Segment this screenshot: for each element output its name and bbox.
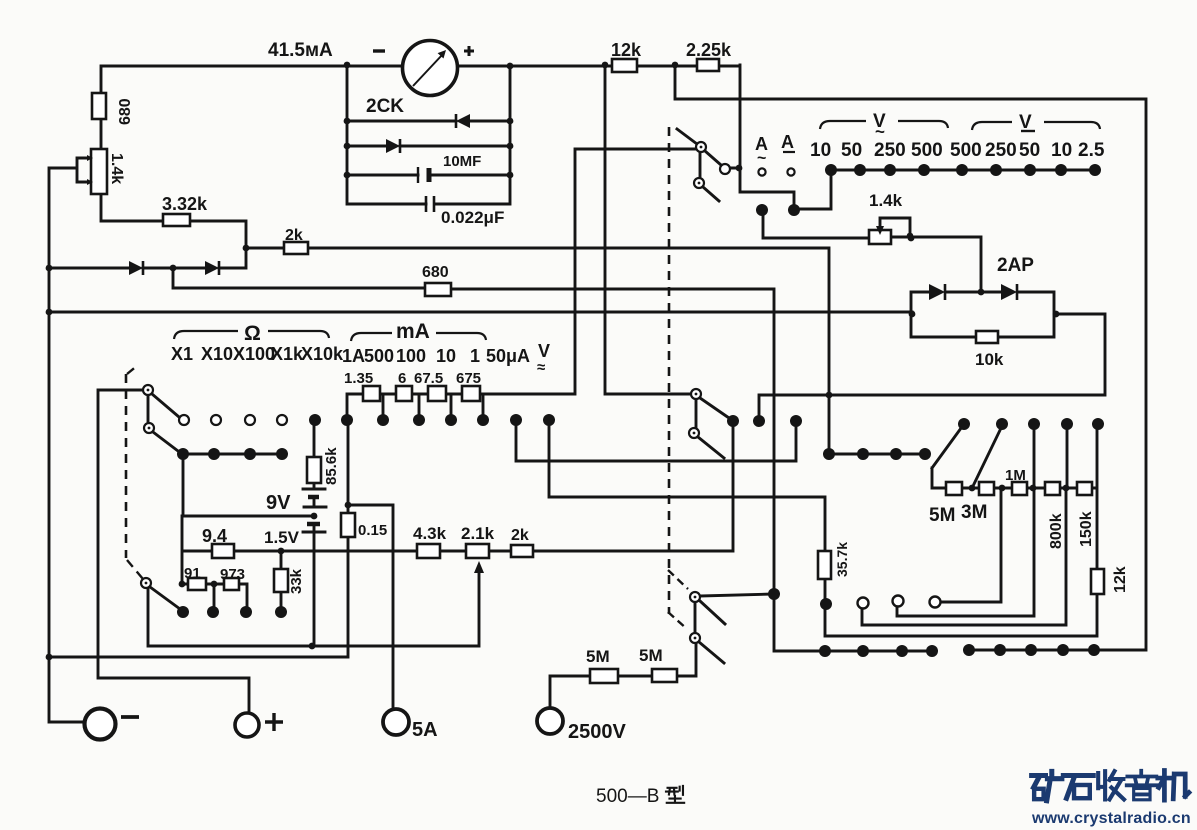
- svg-text:9.4: 9.4: [202, 526, 227, 546]
- svg-text:973: 973: [220, 566, 245, 583]
- svg-text:91: 91: [184, 565, 201, 582]
- svg-text:0.022μF: 0.022μF: [441, 208, 504, 227]
- svg-text:5M: 5M: [639, 646, 663, 665]
- svg-text:250: 250: [874, 140, 906, 161]
- svg-text:0.15: 0.15: [358, 522, 387, 539]
- svg-text:10: 10: [810, 140, 831, 161]
- svg-text:2AP: 2AP: [997, 255, 1034, 276]
- svg-text:X10: X10: [201, 344, 233, 364]
- svg-text:10МF: 10МF: [443, 153, 481, 170]
- svg-text:10: 10: [1051, 140, 1072, 161]
- svg-text:X100: X100: [233, 344, 275, 364]
- svg-text:5A: 5A: [412, 719, 438, 741]
- svg-text:1.4k: 1.4k: [108, 153, 125, 184]
- svg-text:150k: 150k: [1078, 511, 1095, 547]
- svg-text:85.6k: 85.6k: [323, 447, 340, 485]
- svg-text:1.4k: 1.4k: [869, 191, 903, 210]
- svg-text:3M: 3M: [961, 502, 987, 523]
- svg-text:2.5: 2.5: [1078, 140, 1105, 161]
- svg-text:12k: 12k: [611, 40, 642, 60]
- svg-text:6: 6: [398, 370, 406, 387]
- svg-text:35.7k: 35.7k: [834, 542, 850, 577]
- svg-text:41.5мA: 41.5мA: [268, 40, 333, 61]
- svg-text:2k: 2k: [285, 227, 303, 244]
- svg-text:X10k: X10k: [301, 344, 344, 364]
- svg-text:50: 50: [1019, 140, 1040, 161]
- svg-text:5M: 5M: [586, 647, 610, 666]
- svg-text:500—B: 500—B: [596, 786, 659, 807]
- svg-text:33k: 33k: [288, 568, 305, 594]
- svg-text:www.crystalradio.cn: www.crystalradio.cn: [1031, 810, 1191, 827]
- svg-text:1: 1: [470, 346, 480, 366]
- svg-text:1.5V: 1.5V: [264, 528, 300, 547]
- svg-text:A: A: [781, 132, 794, 152]
- svg-text:V: V: [538, 341, 550, 361]
- svg-text:12k: 12k: [1112, 566, 1129, 593]
- svg-text:1A: 1A: [342, 346, 365, 366]
- svg-text:675: 675: [456, 370, 481, 387]
- svg-text:2CK: 2CK: [366, 96, 404, 117]
- svg-text:5M: 5M: [929, 505, 955, 526]
- svg-text:680: 680: [117, 98, 134, 125]
- svg-text:800k: 800k: [1048, 513, 1065, 549]
- svg-text:67.5: 67.5: [414, 370, 443, 387]
- svg-text:2.1k: 2.1k: [461, 524, 495, 543]
- svg-text:9V: 9V: [266, 492, 291, 514]
- svg-text:1.35: 1.35: [344, 370, 373, 387]
- svg-text:4.3k: 4.3k: [413, 524, 447, 543]
- svg-text:500: 500: [950, 140, 982, 161]
- svg-text:X1k: X1k: [271, 344, 304, 364]
- svg-text:Ω: Ω: [244, 322, 261, 345]
- svg-text:~: ~: [875, 122, 885, 141]
- svg-text:mA: mA: [396, 320, 430, 343]
- svg-text:500: 500: [911, 140, 943, 161]
- svg-text:1M: 1M: [1005, 467, 1026, 484]
- svg-text:≈: ≈: [537, 359, 545, 376]
- svg-text:250: 250: [985, 140, 1017, 161]
- svg-text:680: 680: [422, 264, 449, 281]
- svg-text:50μA: 50μA: [486, 346, 530, 366]
- svg-text:100: 100: [396, 346, 426, 366]
- svg-text:2k: 2k: [511, 527, 529, 544]
- svg-text:3.32k: 3.32k: [162, 194, 208, 214]
- svg-text:10k: 10k: [975, 350, 1004, 369]
- svg-text:2.25k: 2.25k: [686, 40, 732, 60]
- svg-text:~: ~: [757, 150, 766, 167]
- svg-text:500: 500: [364, 346, 394, 366]
- svg-text:50: 50: [841, 140, 862, 161]
- svg-text:2500V: 2500V: [568, 721, 626, 743]
- svg-text:X1: X1: [171, 344, 193, 364]
- svg-text:10: 10: [436, 346, 456, 366]
